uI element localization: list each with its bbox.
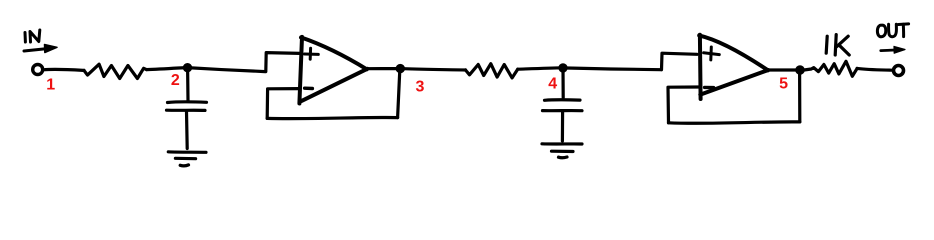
svg-text:3: 3 [416, 78, 425, 95]
svg-text:4: 4 [548, 76, 557, 93]
svg-text:5: 5 [779, 75, 788, 92]
svg-text:2: 2 [171, 72, 180, 89]
svg-text:1: 1 [46, 76, 55, 93]
